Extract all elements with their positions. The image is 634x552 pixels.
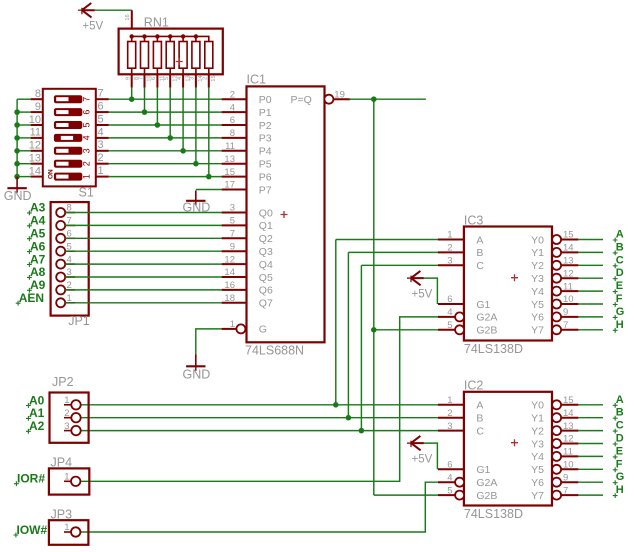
svg-text:5: 5 — [447, 485, 452, 496]
svg-text:G1: G1 — [476, 464, 490, 476]
svg-text:Y5: Y5 — [531, 464, 544, 476]
svg-text:5: 5 — [230, 216, 235, 227]
wire RN1 output 4 down to row P3 — [169, 88, 171, 138]
JP1 pin 3 — [56, 267, 75, 281]
svg-text:Y1: Y1 — [531, 247, 544, 259]
svg-text:Y6: Y6 — [531, 312, 544, 324]
IC1 pin 15 (P6) — [222, 167, 272, 184]
net label IOR# — [14, 472, 45, 487]
decoder IC2 74LS138D — [438, 379, 578, 522]
JP1 pin 2 — [56, 280, 75, 294]
S1 pin 12 stub (left) — [29, 140, 43, 152]
svg-text:2: 2 — [447, 243, 452, 254]
net label A7 — [27, 252, 46, 267]
svg-text:4: 4 — [81, 135, 91, 140]
IC3 body box — [464, 227, 552, 341]
IC2 pin 4 (G2A, active-low) — [438, 472, 497, 489]
wire IOR# net JP4 to IC3 G2A — [80, 317, 438, 481]
wire IC3 Y6 output to net G — [578, 316, 603, 318]
wire +5V to IC2 G1 — [424, 443, 438, 469]
wire RN1 output 2 down to row P1 — [144, 88, 146, 113]
svg-text:B: B — [616, 407, 624, 419]
wire IC2 Y4 output to net E — [578, 455, 603, 457]
IC1 pin 17 (P7) — [222, 180, 272, 197]
IC1 body box — [247, 86, 325, 342]
junction A0 net at vertical branch — [333, 402, 339, 408]
svg-text:3: 3 — [230, 203, 235, 214]
svg-text:AEN: AEN — [19, 291, 44, 305]
svg-text:Y1: Y1 — [531, 413, 544, 425]
svg-text:Y3: Y3 — [531, 273, 544, 285]
wire S1 pin 5 to IC1 P2 — [109, 124, 222, 126]
svg-text:1: 1 — [98, 165, 104, 177]
svg-text:IC3: IC3 — [464, 214, 484, 228]
S1 pin 4 stub (right) — [96, 126, 109, 138]
svg-text:8: 8 — [230, 128, 235, 139]
wire IC2 Y0 output to net A — [578, 404, 603, 406]
IC1 pin 18 (Q7) — [222, 293, 273, 310]
wire S1 pin 9 to bus — [17, 111, 31, 113]
IC2 pin 14 (Y1, active-low output) — [531, 408, 578, 425]
IC2 pin 15 (Y0, active-low output) — [531, 395, 578, 412]
svg-text:15: 15 — [563, 395, 574, 406]
S1 switch element 7 — [55, 96, 92, 103]
svg-text:12: 12 — [29, 140, 41, 152]
IC3 pin 3 (C) — [438, 256, 484, 273]
svg-text:16: 16 — [125, 14, 131, 20]
svg-text:A: A — [476, 400, 483, 412]
svg-text:9: 9 — [563, 472, 568, 483]
svg-text:GND: GND — [4, 189, 32, 203]
svg-text:6: 6 — [98, 101, 104, 113]
wire JP1 pin 6 to IC1 Q2 (net A5) — [65, 237, 221, 239]
junction bus at S1 pin 14 — [14, 174, 20, 180]
junction RN1 output 4 on P3 row — [167, 135, 173, 141]
svg-text:1: 1 — [64, 471, 69, 482]
IC2 pin 5 (G2B, active-low) — [438, 485, 497, 502]
IC3 pin 15 (Y0, active-low output) — [531, 230, 578, 247]
net label B (IC3 Y1) — [613, 241, 624, 255]
svg-text:7: 7 — [81, 97, 91, 102]
svg-text:A8: A8 — [30, 265, 46, 279]
connector JP4 (IOR#) — [49, 456, 89, 495]
IC3 origin cross — [511, 274, 518, 281]
connector JP2 — [50, 375, 89, 443]
svg-text:9: 9 — [563, 307, 568, 318]
net label A6 — [27, 239, 46, 254]
svg-text:C: C — [616, 254, 624, 266]
svg-text:P5: P5 — [259, 159, 272, 171]
IC1 pin 6 (P2) — [222, 115, 272, 132]
JP3 body box — [49, 520, 89, 545]
RN1 bus junction 2 — [142, 34, 146, 38]
IC2 body box — [464, 392, 552, 506]
net label H (IC3 Y7) — [613, 319, 624, 333]
resistor RN1 element 3 — [151, 36, 165, 87]
IC1 pin 11 (P4) — [222, 141, 272, 158]
wire A0 net to IC3 pin 1 — [336, 239, 438, 241]
svg-text:6: 6 — [81, 110, 91, 115]
S1 pin 14 stub (left) — [29, 165, 43, 177]
power +5V supply symbol (top left) — [78, 3, 104, 33]
svg-text:Y0: Y0 — [531, 234, 544, 246]
junction bus at S1 pin 9 — [14, 109, 20, 115]
svg-text:A2: A2 — [29, 419, 45, 433]
net label C (IC3 Y2) — [613, 254, 624, 268]
svg-text:Y2: Y2 — [531, 260, 544, 272]
S1 pin 6 stub (right) — [96, 101, 109, 113]
svg-text:Q0: Q0 — [259, 207, 273, 219]
IC1 pin 9 (Q3) — [222, 241, 273, 258]
svg-text:A3: A3 — [30, 201, 46, 215]
svg-text:Q6: Q6 — [259, 285, 273, 297]
wire IC2 Y2 output to net C — [578, 430, 603, 432]
S1 pin 1 stub (right) — [96, 165, 109, 177]
IC1 pin 12 (Q4) — [222, 254, 273, 271]
ground GND symbol (S1 common bus) — [4, 177, 32, 204]
net label A0 — [26, 393, 45, 408]
svg-text:Y6: Y6 — [531, 477, 544, 489]
junction bus at S1 pin 13 — [14, 161, 20, 167]
IC2 pin 13 (Y2, active-low output) — [531, 421, 578, 438]
wire +5V to IC3 G1 — [424, 278, 438, 304]
svg-text:13: 13 — [224, 154, 235, 165]
IC2 pin 7 (Y7, active-low output) — [531, 485, 578, 502]
svg-text:IC1: IC1 — [247, 73, 267, 87]
JP4 pin 1 — [64, 471, 80, 486]
IC3 pin 9 (Y6, active-low output) — [531, 307, 578, 324]
svg-text:74LS138D: 74LS138D — [464, 342, 523, 356]
wire P=Q net branch to IC3 G2B — [374, 329, 438, 331]
wire IC2 Y1 output to net B — [578, 417, 603, 419]
resistor RN1 element 1 — [126, 36, 140, 87]
wire S1 pin 4 to IC1 P3 — [109, 137, 222, 139]
svg-text:Y0: Y0 — [531, 400, 544, 412]
svg-text:H: H — [616, 484, 624, 496]
wire IC1 G (pin 1) to ground — [196, 329, 222, 354]
svg-text:F: F — [616, 458, 623, 470]
DIP switch S1 — [29, 88, 109, 200]
IC3 pin 14 (Y1, active-low output) — [531, 243, 578, 260]
svg-text:2: 2 — [98, 152, 104, 164]
svg-text:11: 11 — [30, 127, 41, 139]
svg-text:7: 7 — [138, 77, 144, 80]
svg-text:10: 10 — [563, 460, 574, 471]
svg-text:F: F — [616, 293, 623, 305]
svg-text:18: 18 — [224, 293, 235, 304]
IC3 pin 5 (G2B, active-low) — [438, 320, 497, 337]
svg-text:2: 2 — [64, 408, 69, 419]
svg-text:2: 2 — [230, 89, 235, 100]
net label E (IC2 Y4) — [613, 445, 623, 459]
svg-text:7: 7 — [563, 320, 568, 331]
svg-text:Y2: Y2 — [531, 425, 544, 437]
svg-text:JP3: JP3 — [51, 507, 73, 521]
wire IOW# net JP3 to IC2 G2A — [80, 482, 438, 532]
JP1 pin 7 — [56, 216, 75, 230]
junction bus at S1 pin 11 — [14, 135, 20, 141]
svg-text:3: 3 — [447, 421, 452, 432]
connector JP1 — [51, 202, 90, 328]
connector JP3 (IOW#) — [49, 507, 89, 545]
svg-text:3: 3 — [81, 148, 91, 153]
IC1 origin cross — [281, 211, 288, 218]
svg-text:Q7: Q7 — [259, 298, 273, 310]
junction P=Q net at vertical drop — [371, 96, 377, 102]
svg-text:19: 19 — [334, 90, 345, 101]
svg-text:4: 4 — [98, 126, 104, 138]
wire JP1 pin 5 to IC1 Q3 (net A6) — [65, 250, 221, 252]
svg-text:G2A: G2A — [476, 477, 497, 489]
svg-text:A0: A0 — [29, 393, 45, 407]
wire IC2 Y7 output to net H — [578, 494, 603, 496]
svg-text:5: 5 — [98, 113, 104, 125]
svg-text:P0: P0 — [259, 94, 272, 106]
svg-text:A: A — [616, 229, 624, 241]
RN1 body box — [119, 29, 223, 75]
wire A0 net vertical up to IC3 — [335, 240, 337, 405]
svg-text:16: 16 — [224, 280, 235, 291]
junction RN1 output 2 on P1 row — [142, 109, 148, 115]
svg-text:+5V: +5V — [82, 21, 103, 33]
resistor RN1 element 7 — [203, 42, 217, 88]
wire RN1 output 3 down to row P2 — [156, 88, 158, 125]
svg-text:G2B: G2B — [476, 325, 497, 337]
svg-text:P4: P4 — [259, 146, 272, 158]
svg-text:11: 11 — [563, 281, 573, 292]
wire JP1 pin 7 to IC1 Q1 (net A4) — [65, 224, 221, 226]
junction RN1 output 5 on P4 row — [180, 148, 186, 154]
svg-text:G2A: G2A — [476, 312, 497, 324]
junction RN1 output 6 on P5 row — [193, 161, 199, 167]
wire IC3 Y2 output to net C — [578, 264, 603, 266]
S1 pin 10 stub (left) — [29, 114, 43, 126]
wire A1 net to IC3 pin 2 — [348, 251, 438, 253]
svg-text:6: 6 — [151, 77, 157, 80]
wire IC2 Y5 output to net F — [578, 468, 603, 470]
svg-text:14: 14 — [563, 408, 574, 419]
net label C (IC2 Y2) — [613, 420, 624, 434]
wire JP1 pin 3 to IC1 Q5 (net A8) — [65, 276, 221, 278]
net label D (IC3 Y3) — [613, 267, 624, 281]
svg-text:P1: P1 — [259, 107, 272, 119]
IC1 pin 19 (P=Q output, active-low) — [290, 90, 350, 106]
IC1 pin 5 (Q1) — [222, 216, 273, 233]
net label H (IC2 Y7) — [613, 484, 624, 498]
svg-text:+5V: +5V — [412, 289, 433, 301]
RN1 pin 16 stub (top) — [131, 10, 133, 29]
wire IC3 Y4 output to net E — [578, 290, 603, 292]
svg-text:2: 2 — [447, 408, 452, 419]
svg-text:E: E — [616, 445, 623, 457]
svg-text:IOW#: IOW# — [17, 523, 48, 537]
svg-text:G: G — [259, 324, 267, 336]
net label A (IC2 Y0) — [613, 394, 624, 408]
IC3 pin 1 (A) — [438, 230, 483, 247]
S1 pin 7 stub (right) — [96, 88, 109, 100]
junction RN1 output 1 on P0 row — [129, 96, 135, 102]
svg-text:P3: P3 — [259, 133, 272, 145]
svg-text:G: G — [616, 471, 625, 483]
svg-text:S1: S1 — [79, 186, 94, 200]
svg-text:Q3: Q3 — [259, 246, 273, 258]
JP4 body box — [49, 468, 89, 494]
svg-text:A: A — [476, 234, 483, 246]
IC2 origin cross — [511, 439, 518, 446]
power +5V supply symbol (at IC2 G1) — [407, 436, 433, 466]
svg-text:4: 4 — [230, 102, 235, 113]
wire IC3 Y5 output to net F — [578, 303, 603, 305]
svg-text:A: A — [616, 394, 624, 406]
net label B (IC2 Y1) — [613, 407, 624, 421]
IC1 pin 13 (P5) — [222, 154, 272, 171]
wire S1 pin 13 to bus — [17, 163, 31, 165]
IC3 pin 6 (G1) — [438, 294, 491, 311]
IC1 pin 16 (Q6) — [222, 280, 273, 297]
svg-text:1: 1 — [447, 230, 452, 241]
wire S1 pin 6 to IC1 P1 — [109, 111, 222, 113]
wire A2 net JP2 pin 3 to IC2 pin 3 — [80, 430, 438, 432]
svg-text:Q5: Q5 — [259, 272, 273, 284]
junction A1 net at vertical branch — [346, 415, 352, 421]
IC3 pin 7 (Y7, active-low output) — [531, 320, 578, 337]
svg-text:6: 6 — [447, 294, 452, 305]
net label F (IC2 Y5) — [613, 458, 623, 472]
RN1 bus junction 3 — [155, 34, 159, 38]
svg-text:14: 14 — [29, 165, 41, 177]
svg-text:2: 2 — [203, 77, 209, 80]
svg-text:H: H — [616, 319, 624, 331]
junction P=Q net at IC3 G2B branch — [371, 327, 377, 333]
wire S1 pin 14 to bus — [17, 176, 31, 178]
svg-text:14: 14 — [224, 267, 235, 278]
net label F (IC3 Y5) — [613, 293, 623, 307]
JP2 body box — [50, 393, 89, 443]
svg-text:15: 15 — [211, 75, 217, 81]
svg-text:74LS688N: 74LS688N — [245, 344, 304, 358]
svg-text:JP2: JP2 — [52, 375, 74, 389]
wire JP1 pin 8 to IC1 Q0 (net A3) — [65, 212, 221, 214]
ground GND symbol (IC1 G) — [183, 354, 211, 381]
wire IC2 Y3 output to net D — [578, 443, 603, 445]
svg-text:1: 1 — [64, 522, 69, 533]
resistor RN1 element 4 — [164, 36, 178, 87]
junction bus at S1 pin 12 — [14, 148, 20, 154]
wire S1 pin 12 to bus — [17, 150, 31, 152]
svg-text:D: D — [616, 267, 624, 279]
svg-text:A7: A7 — [30, 252, 46, 266]
svg-text:B: B — [476, 247, 483, 259]
wire A2 net to IC3 pin 3 — [361, 264, 438, 266]
svg-text:RN1: RN1 — [144, 16, 169, 30]
svg-text:E: E — [616, 280, 623, 292]
svg-text:ON: ON — [47, 169, 54, 179]
svg-text:C: C — [616, 420, 624, 432]
S1 switch element 5 — [55, 122, 92, 129]
IC3 pin 12 (Y3, active-low output) — [531, 268, 578, 285]
svg-text:6: 6 — [447, 460, 452, 471]
IC2 pin 6 (G1) — [438, 460, 491, 477]
svg-text:7: 7 — [230, 229, 235, 240]
wire A1 net vertical up to IC3 — [347, 252, 349, 417]
svg-text:9: 9 — [230, 241, 235, 252]
JP1 pin 5 — [56, 241, 75, 255]
svg-text:G2B: G2B — [476, 490, 497, 502]
svg-text:B: B — [616, 241, 624, 253]
net label A4 — [27, 214, 46, 229]
S1 pin 11 stub (left) — [30, 127, 43, 139]
wire RN1 output 5 down to row P4 — [182, 88, 184, 151]
svg-text:1: 1 — [81, 174, 91, 179]
wire IC1 P7 (pin 17) to ground — [196, 189, 222, 191]
wire S1 pin 10 to bus — [17, 124, 31, 126]
svg-text:IOR#: IOR# — [17, 472, 45, 486]
wire JP1 pin 1 to IC1 Q7 (net AEN) — [65, 302, 221, 304]
svg-text:Y5: Y5 — [531, 299, 544, 311]
wire JP1 pin 4 to IC1 Q4 (net A7) — [65, 263, 221, 265]
RN1 bus junction 1 — [130, 34, 134, 38]
svg-text:IC2: IC2 — [464, 379, 484, 393]
S1 switch element 6 — [55, 109, 92, 116]
S1 pin 8 stub (left) — [31, 88, 43, 100]
wire S1 left common bus (vertical) — [16, 99, 18, 176]
svg-text:A5: A5 — [30, 227, 46, 241]
junction A2 net at vertical branch — [359, 428, 365, 434]
JP1 pin 1 — [56, 293, 75, 307]
svg-text:1: 1 — [64, 395, 69, 406]
IC2 pin 1 (A) — [438, 395, 483, 412]
IC3 pin 10 (Y5, active-low output) — [531, 294, 578, 311]
wire IC3 Y7 output to net H — [578, 329, 603, 331]
svg-text:11: 11 — [225, 141, 235, 152]
svg-text:13: 13 — [563, 421, 574, 432]
IC2 pin 11 (Y4, active-low output) — [531, 447, 578, 464]
svg-text:12: 12 — [224, 254, 235, 265]
IC2 pin 2 (B) — [438, 408, 483, 425]
decoder IC3 74LS138D — [438, 214, 578, 357]
resistor RN1 element 2 — [138, 36, 152, 87]
IC1 pin 3 (Q0) — [222, 203, 273, 220]
JP1 pin 6 — [56, 229, 75, 243]
svg-text:Q2: Q2 — [259, 233, 273, 245]
svg-text:A9: A9 — [30, 278, 46, 292]
IC1 pin 4 (P1) — [222, 102, 272, 119]
svg-text:17: 17 — [224, 180, 235, 191]
svg-text:5: 5 — [164, 77, 170, 80]
S1 pin 3 stub (right) — [96, 139, 109, 151]
JP1 body box — [51, 202, 89, 316]
wire P=Q output horizontal segment — [349, 98, 426, 100]
power +5V supply symbol (at IC3 G1) — [407, 271, 433, 301]
S1 switch element 2 — [55, 160, 92, 167]
wire A2 net vertical up to IC3 — [360, 265, 362, 430]
net label E (IC3 Y4) — [613, 280, 623, 294]
IC2 pin 3 (C) — [438, 421, 484, 438]
JP3 pin 1 — [64, 522, 80, 537]
svg-text:3: 3 — [190, 77, 196, 80]
wire S1 pin 11 to bus — [17, 137, 31, 139]
svg-text:P=Q: P=Q — [290, 94, 311, 106]
S1 switch element 3 — [55, 147, 92, 154]
svg-text:Y7: Y7 — [531, 325, 544, 337]
S1 pin 13 stub (left) — [29, 153, 43, 165]
svg-text:15: 15 — [563, 230, 574, 241]
wire P=Q net vertical down to IC2 G2B — [373, 99, 375, 495]
wire RN1 output 6 down to row P5 — [195, 88, 197, 164]
net label A2 — [26, 419, 45, 434]
resistor network RN1 — [119, 10, 223, 87]
svg-text:8: 8 — [35, 88, 41, 100]
